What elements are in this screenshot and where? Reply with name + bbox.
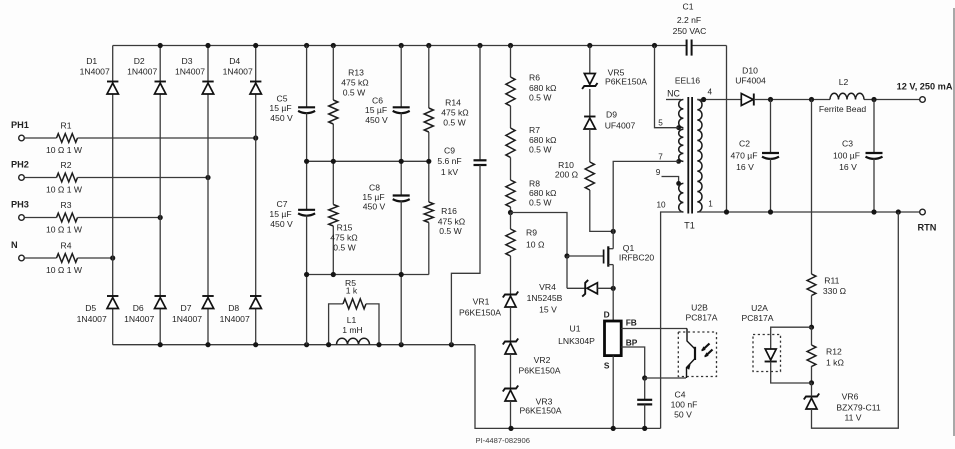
- svg-text:450 V: 450 V: [270, 219, 293, 229]
- capacitor C1: [673, 2, 707, 56]
- node mid rail x333: [331, 159, 336, 164]
- svg-text:D9: D9: [606, 110, 617, 120]
- border right edge: [953, 8, 955, 436]
- resistor R3: [24, 200, 160, 234]
- svg-text:C9: C9: [444, 146, 455, 156]
- svg-text:0.5 W: 0.5 W: [529, 198, 552, 208]
- svg-text:0.5 W: 0.5 W: [439, 226, 462, 236]
- node PH2 junction: [205, 175, 210, 180]
- svg-text:R15: R15: [337, 223, 353, 233]
- svg-text:C2: C2: [739, 139, 750, 149]
- svg-text:1N4007: 1N4007: [127, 67, 157, 77]
- svg-text:1N5245B: 1N5245B: [527, 293, 563, 303]
- svg-text:P6KE150A: P6KE150A: [459, 308, 501, 318]
- node C2 bottom: [768, 209, 773, 214]
- resistor R8: [506, 158, 557, 213]
- svg-text:L2: L2: [839, 77, 849, 87]
- svg-text:BP: BP: [626, 338, 638, 348]
- svg-text:T1: T1: [684, 221, 695, 231]
- svg-text:475 kΩ: 475 kΩ: [438, 217, 466, 227]
- svg-text:R16: R16: [441, 206, 457, 216]
- node lower mid rail x333: [331, 272, 336, 277]
- label PI number: [476, 436, 530, 445]
- svg-text:D4: D4: [229, 56, 240, 66]
- svg-text:1: 1: [708, 200, 713, 209]
- node bottom rail x451: [449, 342, 454, 347]
- resistor R11: [807, 100, 847, 328]
- inductor L2 ferrite bead: [819, 77, 867, 114]
- svg-text:Ferrite Bead: Ferrite Bead: [819, 104, 867, 114]
- node C4 bottom: [642, 426, 647, 431]
- svg-text:NC: NC: [667, 89, 680, 99]
- input terminal N: [11, 240, 24, 261]
- zener VR2: [503, 339, 561, 389]
- svg-text:PH3: PH3: [11, 199, 29, 209]
- winding 9-10: [679, 183, 684, 212]
- svg-text:10: 10: [656, 201, 666, 210]
- resistor R9: [506, 213, 545, 295]
- capacitor C2: [731, 100, 779, 213]
- resistor R5: [329, 278, 379, 345]
- node VR4/source: [611, 286, 616, 291]
- svg-text:N: N: [11, 240, 18, 250]
- wire emitter: [645, 377, 686, 379]
- resistor R10: [555, 160, 613, 231]
- node pin5: [676, 125, 681, 130]
- svg-text:R1: R1: [61, 121, 72, 131]
- resistor R13: [329, 46, 370, 162]
- wire output top: [771, 99, 920, 101]
- resistor R7: [506, 106, 557, 158]
- diode D5: [77, 296, 119, 324]
- node drain: [611, 229, 616, 234]
- node R11 top: [809, 97, 814, 102]
- svg-text:10 Ω: 10 Ω: [526, 240, 545, 250]
- svg-text:10 Ω 1 W: 10 Ω 1 W: [46, 265, 83, 275]
- svg-text:C6: C6: [372, 96, 383, 106]
- capacitor C9: [437, 46, 486, 345]
- capacitor C6: [365, 46, 410, 162]
- svg-text:R11: R11: [824, 276, 839, 286]
- svg-text:475 kΩ: 475 kΩ: [330, 233, 358, 243]
- wire mid rail: [307, 160, 429, 162]
- svg-text:680 kΩ: 680 kΩ: [529, 83, 557, 93]
- svg-text:1 kΩ: 1 kΩ: [826, 358, 844, 368]
- wire pin9 stub: [656, 168, 679, 183]
- svg-text:S: S: [604, 361, 610, 371]
- node top rail x160: [158, 43, 163, 48]
- svg-text:R14: R14: [445, 98, 461, 108]
- winding 5-7: [679, 129, 684, 161]
- svg-text:1N4007: 1N4007: [172, 314, 202, 324]
- svg-text:UF4007: UF4007: [605, 121, 636, 131]
- node top rail x208: [205, 43, 210, 48]
- svg-text:R6: R6: [529, 73, 540, 83]
- resistor R16: [424, 161, 466, 274]
- winding secondary 4-1: [697, 100, 702, 213]
- diode D8: [220, 296, 262, 324]
- op-amp U1 LNK304P: [558, 288, 638, 370]
- capacitor C8: [362, 161, 409, 344]
- svg-text:1 kV: 1 kV: [441, 167, 458, 177]
- node top rail x255: [253, 43, 258, 48]
- diode D3: [175, 56, 214, 94]
- svg-text:330 Ω: 330 Ω: [823, 286, 847, 296]
- svg-text:R10: R10: [558, 160, 574, 170]
- node gate: [564, 253, 569, 258]
- svg-text:R8: R8: [529, 179, 540, 189]
- svg-text:5: 5: [658, 119, 663, 128]
- wire bottom rail: [113, 345, 661, 429]
- wire leg D1/D5: [112, 46, 114, 345]
- zener VR3: [503, 386, 562, 429]
- node lower mid rail x306: [304, 272, 309, 277]
- svg-text:1N4007: 1N4007: [175, 67, 205, 77]
- node PH1 junction: [253, 135, 258, 140]
- svg-text:250 VAC: 250 VAC: [673, 26, 707, 36]
- svg-text:12 V, 250 mA: 12 V, 250 mA: [897, 82, 953, 92]
- svg-text:0.5 W: 0.5 W: [343, 88, 366, 98]
- output terminal 12V: [897, 82, 953, 103]
- resistor R12: [807, 327, 844, 383]
- input terminal PH1: [11, 120, 29, 141]
- svg-text:C5: C5: [277, 94, 288, 104]
- wire leg D2/D6: [159, 46, 161, 345]
- transistor U2B photo: [686, 329, 712, 379]
- node pin4: [701, 97, 706, 102]
- svg-text:1N4007: 1N4007: [223, 67, 253, 77]
- resistor R6: [506, 46, 557, 107]
- wire leg D3/D7: [207, 46, 209, 345]
- svg-text:IRFBC20: IRFBC20: [619, 253, 655, 263]
- svg-text:P6KE150A: P6KE150A: [605, 77, 647, 87]
- node R8/R9 junction: [508, 210, 513, 215]
- svg-text:50 V: 50 V: [674, 410, 692, 420]
- svg-text:15 µF: 15 µF: [269, 209, 291, 219]
- svg-text:C3: C3: [842, 139, 853, 149]
- node bottom rail x208: [205, 342, 210, 347]
- wire lower mid rail: [307, 274, 429, 276]
- svg-text:1N4007: 1N4007: [77, 314, 107, 324]
- capacitor C5: [269, 46, 315, 162]
- svg-text:D6: D6: [133, 303, 144, 313]
- svg-text:450 V: 450 V: [363, 202, 386, 212]
- svg-text:VR2: VR2: [534, 355, 551, 365]
- wire pin10: [656, 201, 683, 429]
- svg-text:1N4007: 1N4007: [124, 314, 154, 324]
- wire gate to VR4: [566, 256, 568, 288]
- diode D7: [172, 296, 214, 324]
- svg-text:450 V: 450 V: [270, 113, 293, 123]
- node PH3 junction: [158, 215, 163, 220]
- svg-text:FB: FB: [626, 318, 637, 328]
- resistor R4: [24, 241, 112, 275]
- wire pin4: [697, 88, 741, 100]
- svg-text:D3: D3: [182, 56, 193, 66]
- svg-text:PH1: PH1: [11, 120, 29, 130]
- svg-text:0.5 W: 0.5 W: [443, 118, 466, 128]
- wire gate tap: [511, 213, 568, 257]
- svg-text:L1: L1: [347, 315, 357, 325]
- node mid rail x401: [399, 159, 404, 164]
- svg-text:VR1: VR1: [473, 297, 490, 307]
- svg-text:D7: D7: [181, 303, 192, 313]
- node C1 return: [724, 209, 729, 214]
- wire top rail: [113, 46, 727, 213]
- svg-text:VR4: VR4: [539, 282, 556, 292]
- svg-text:680 kΩ: 680 kΩ: [529, 135, 557, 145]
- svg-text:C4: C4: [675, 390, 686, 400]
- svg-text:D1: D1: [86, 56, 97, 66]
- svg-text:1N4007: 1N4007: [80, 67, 110, 77]
- node VR3 bottom: [508, 426, 513, 431]
- svg-text:VR6: VR6: [842, 392, 859, 402]
- svg-text:15 V: 15 V: [539, 305, 557, 315]
- svg-text:D10: D10: [742, 66, 758, 76]
- node RTN junction: [896, 209, 901, 214]
- svg-text:PH2: PH2: [11, 159, 29, 169]
- svg-text:0.5 W: 0.5 W: [529, 93, 552, 103]
- svg-text:15 µF: 15 µF: [365, 105, 387, 115]
- diode D10: [735, 66, 770, 106]
- diode D2: [127, 56, 166, 94]
- svg-text:PI-4487-082906: PI-4487-082906: [476, 436, 530, 445]
- node top rail x428: [426, 43, 431, 48]
- svg-text:15 µF: 15 µF: [269, 103, 291, 113]
- svg-text:C1: C1: [683, 2, 694, 12]
- inductor L1: [337, 315, 370, 345]
- node BP/C4: [642, 375, 647, 380]
- input terminal PH2: [11, 159, 29, 180]
- svg-text:16 V: 16 V: [839, 162, 857, 172]
- svg-text:200 Ω: 200 Ω: [555, 170, 579, 180]
- svg-text:Q1: Q1: [623, 243, 635, 253]
- svg-text:R13: R13: [348, 68, 364, 78]
- svg-text:RTN: RTN: [918, 223, 937, 233]
- svg-text:PC817A: PC817A: [741, 313, 773, 323]
- diode D9: [584, 110, 635, 163]
- resistor R2: [24, 160, 208, 194]
- node bottom rail x401: [399, 342, 404, 347]
- wire leg D4/D8: [255, 46, 257, 345]
- node C2 top: [768, 97, 773, 102]
- winding NC-5: [658, 89, 683, 128]
- resistor R14: [424, 46, 469, 162]
- svg-text:P6KE150A: P6KE150A: [518, 366, 560, 376]
- zener VR4: [527, 280, 614, 315]
- node N junction: [110, 255, 115, 260]
- svg-text:R2: R2: [61, 160, 72, 170]
- wire RTN rail: [727, 211, 920, 213]
- wire gate to Q1: [567, 255, 604, 257]
- node top rail x510: [508, 43, 513, 48]
- svg-text:9: 9: [656, 168, 661, 177]
- svg-text:100 µF: 100 µF: [833, 151, 860, 161]
- RTN terminal: [918, 209, 937, 232]
- zener VR5: [582, 46, 647, 117]
- wire BP pin: [621, 347, 645, 378]
- svg-text:16 V: 16 V: [736, 162, 754, 172]
- diode D6: [124, 296, 166, 324]
- wire pin1: [697, 200, 726, 213]
- node pin7: [676, 159, 681, 164]
- svg-text:PC817A: PC817A: [685, 313, 717, 323]
- svg-text:0.5 W: 0.5 W: [333, 243, 356, 253]
- node R12/VR6: [809, 380, 814, 385]
- svg-text:U1: U1: [570, 324, 581, 334]
- svg-text:1 mH: 1 mH: [342, 325, 363, 335]
- zener VR1: [459, 292, 518, 342]
- capacitor C3: [833, 100, 882, 213]
- capacitor C7: [269, 161, 315, 344]
- node C3 bottom: [871, 209, 876, 214]
- op-amp U2A PC817A: [741, 303, 780, 372]
- svg-text:4: 4: [708, 88, 713, 97]
- node R11/U2A: [809, 325, 814, 330]
- svg-text:UF4004: UF4004: [735, 76, 766, 86]
- wire pin5: [655, 46, 679, 128]
- svg-text:2.2 nF: 2.2 nF: [677, 15, 701, 25]
- node lower mid rail x401: [399, 272, 404, 277]
- svg-text:10 Ω 1 W: 10 Ω 1 W: [46, 225, 83, 235]
- svg-text:R7: R7: [529, 125, 540, 135]
- node top rail x480: [477, 43, 482, 48]
- wire FB pin: [621, 328, 687, 330]
- svg-text:D5: D5: [85, 303, 96, 313]
- zener VR6: [804, 212, 899, 428]
- node bottom rail x255: [253, 342, 258, 347]
- svg-text:U2A: U2A: [751, 303, 768, 313]
- svg-text:1N4007: 1N4007: [220, 314, 250, 324]
- node pin9: [676, 181, 681, 186]
- resistor R1: [24, 121, 255, 155]
- svg-text:680 kΩ: 680 kΩ: [529, 188, 557, 198]
- svg-text:100 nF: 100 nF: [671, 400, 698, 410]
- svg-text:0.5 W: 0.5 W: [529, 145, 552, 155]
- capacitor C4: [637, 378, 697, 428]
- svg-text:15 µF: 15 µF: [362, 192, 384, 202]
- svg-text:475 kΩ: 475 kΩ: [341, 78, 369, 88]
- node S bottom: [611, 426, 616, 431]
- svg-text:U2B: U2B: [691, 303, 708, 313]
- svg-text:D8: D8: [228, 303, 239, 313]
- node bottom rail x160: [158, 342, 163, 347]
- wire pin7: [613, 153, 678, 232]
- svg-text:5.6 nF: 5.6 nF: [437, 156, 461, 166]
- svg-text:10 Ω 1 W: 10 Ω 1 W: [46, 145, 83, 155]
- svg-text:P6KE150A: P6KE150A: [519, 406, 561, 416]
- op-amp U2B PC817A: [678, 303, 717, 377]
- svg-text:LNK304P: LNK304P: [558, 336, 595, 346]
- svg-text:7: 7: [658, 153, 663, 162]
- svg-text:475 kΩ: 475 kΩ: [441, 108, 469, 118]
- node top rail x306: [304, 43, 309, 48]
- svg-text:11 V: 11 V: [844, 413, 861, 423]
- svg-text:R3: R3: [61, 200, 72, 210]
- node mid rail x306: [304, 159, 309, 164]
- svg-text:BZX79-C11: BZX79-C11: [836, 403, 880, 413]
- transformer T1 core: [675, 76, 700, 231]
- node L1 left: [326, 342, 331, 347]
- input terminal PH3: [11, 199, 29, 220]
- svg-text:R12: R12: [826, 347, 842, 357]
- svg-text:D2: D2: [134, 56, 145, 66]
- svg-text:R9: R9: [526, 228, 537, 238]
- node bottom rail x306: [304, 342, 309, 347]
- svg-text:D: D: [604, 310, 610, 320]
- svg-text:R4: R4: [61, 241, 72, 251]
- node top rail x589: [587, 43, 592, 48]
- wire S pin: [612, 356, 614, 429]
- svg-text:10 Ω 1 W: 10 Ω 1 W: [46, 185, 83, 195]
- diode D1: [80, 56, 119, 94]
- node top rail x654: [652, 43, 657, 48]
- transistor Q1: [604, 231, 655, 288]
- svg-text:450 V: 450 V: [365, 115, 388, 125]
- svg-text:C7: C7: [277, 199, 288, 209]
- svg-text:EEL16: EEL16: [675, 76, 700, 86]
- diode D4: [223, 56, 262, 94]
- resistor R15: [329, 161, 359, 274]
- node mid rail x428: [426, 159, 431, 164]
- svg-text:1 k: 1 k: [346, 286, 358, 296]
- node L1 right: [376, 342, 381, 347]
- svg-text:470 µF: 470 µF: [731, 151, 758, 161]
- node top rail x401: [399, 43, 404, 48]
- node top rail x333: [331, 43, 336, 48]
- node C3 top: [871, 97, 876, 102]
- diode U2A LED: [765, 327, 812, 383]
- svg-text:C8: C8: [369, 183, 380, 193]
